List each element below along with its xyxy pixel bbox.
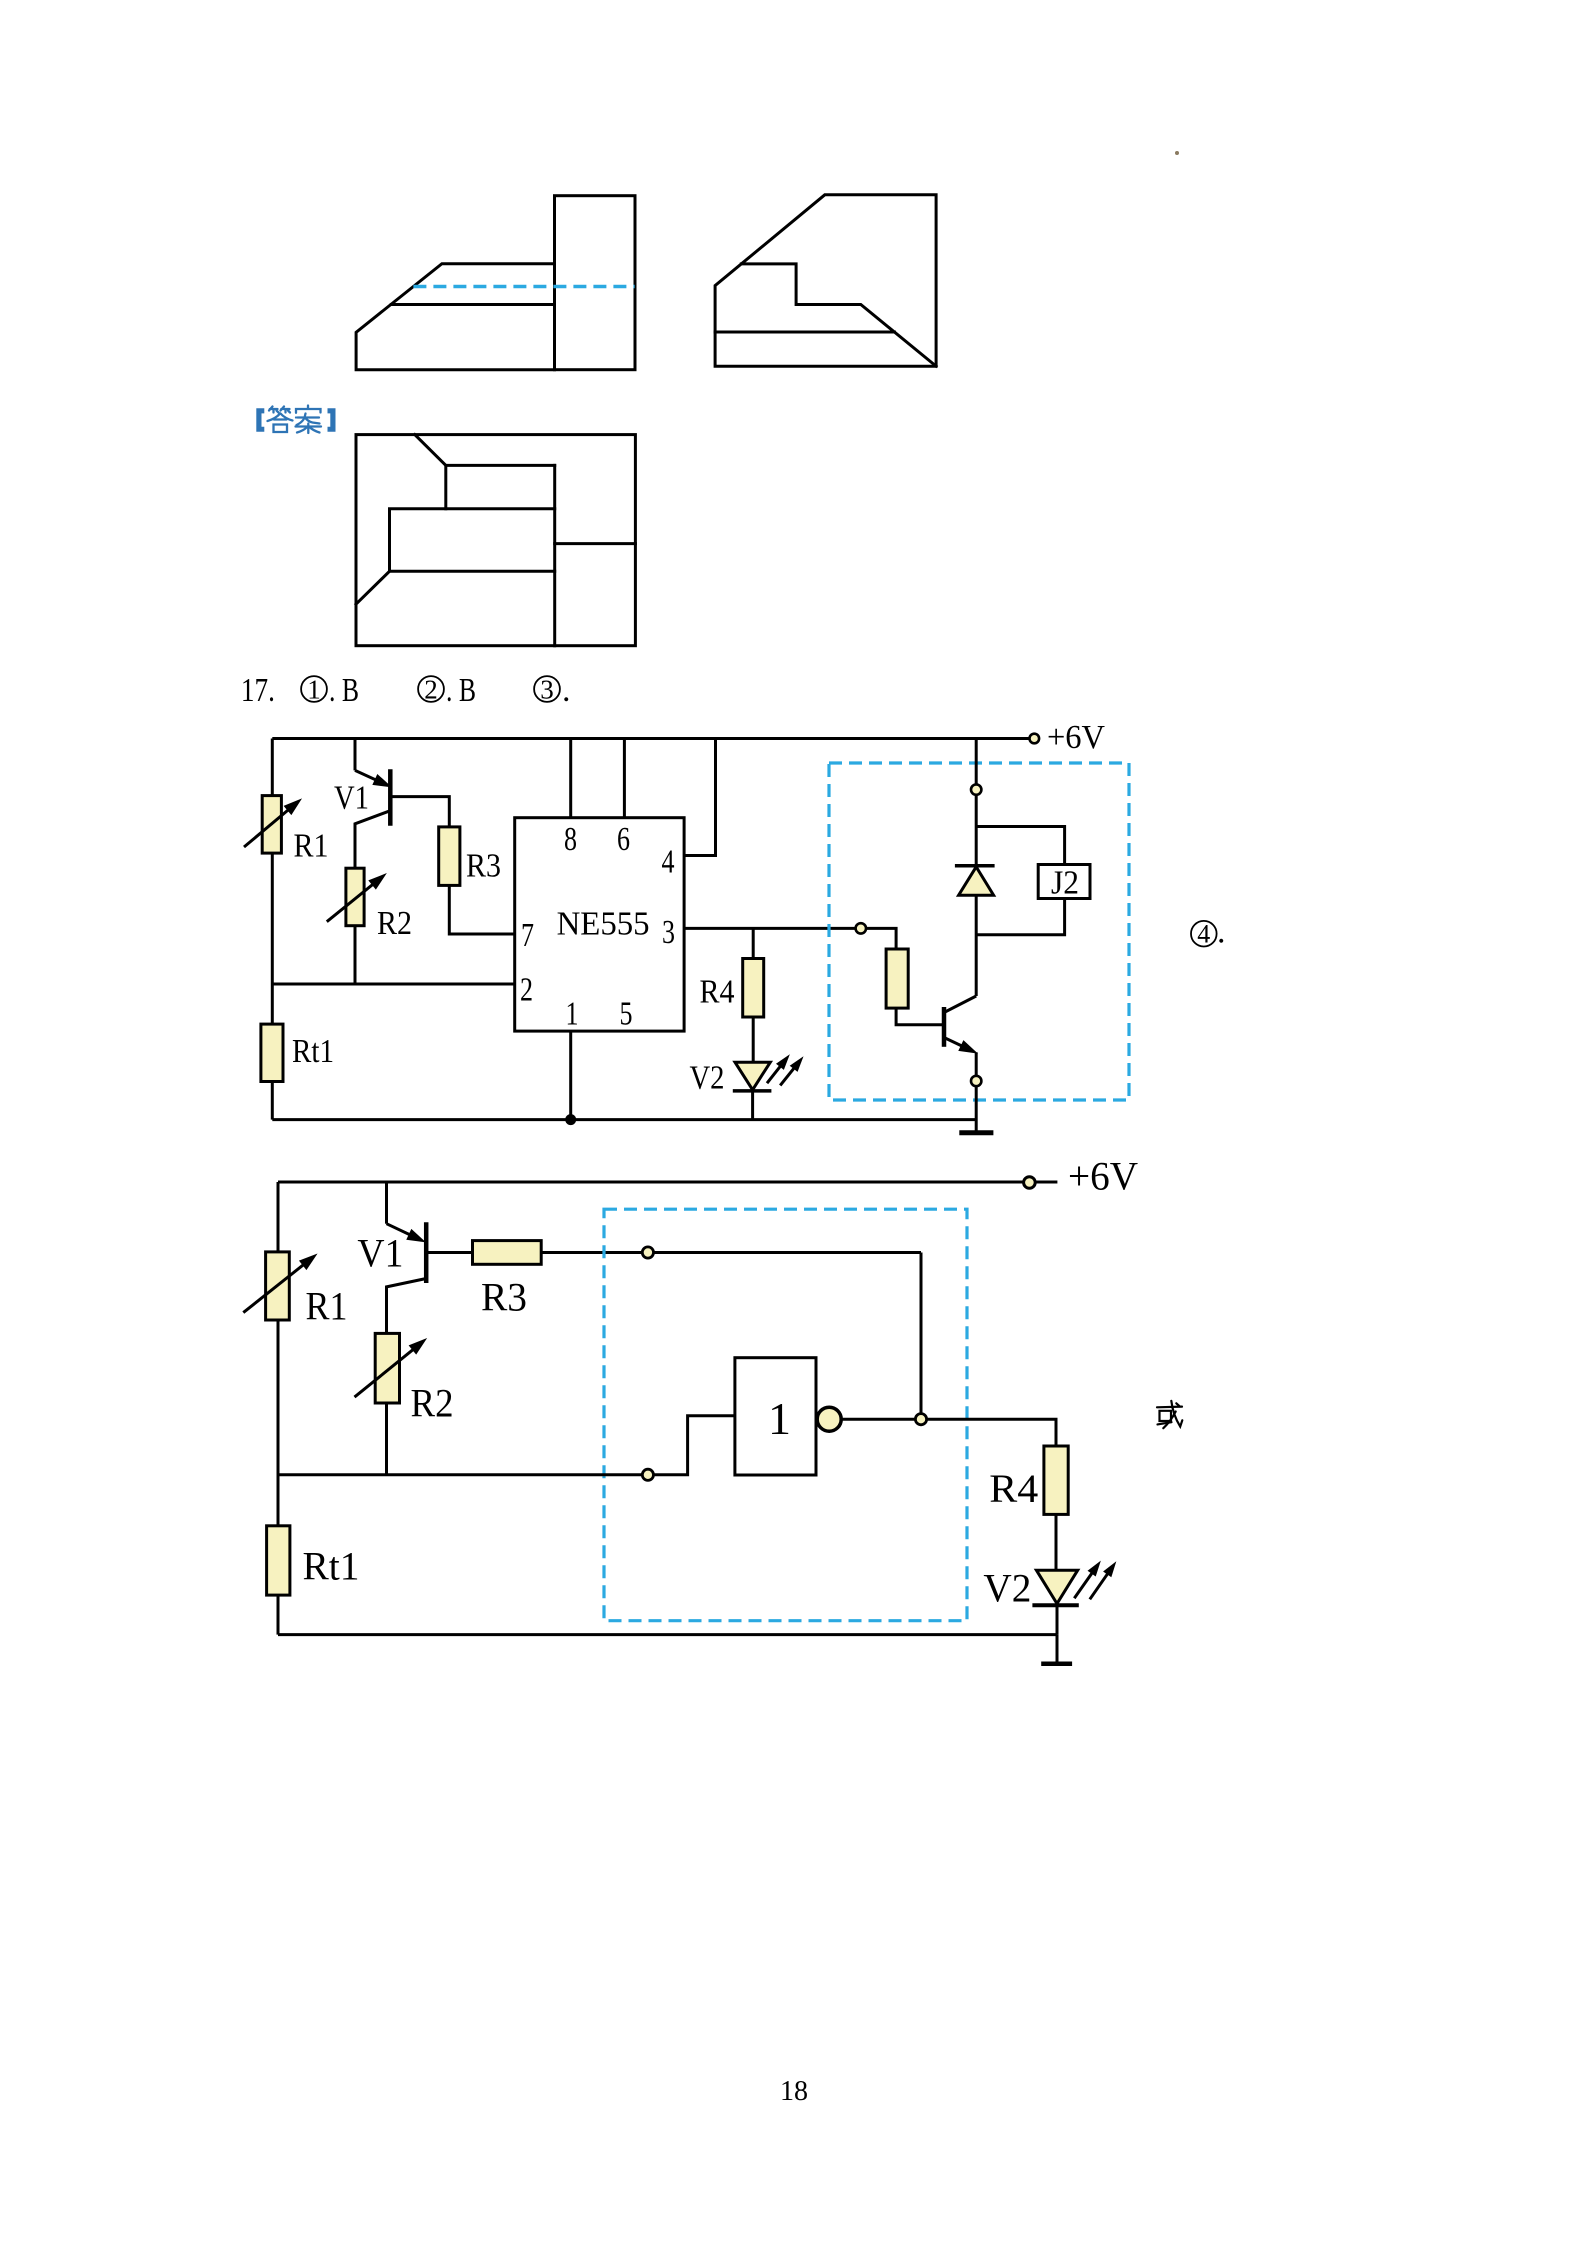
- terminal +6V (open circle): [1030, 734, 1040, 744]
- wire: +6V top rail: [278, 1181, 1023, 1184]
- view1 tall block: [555, 196, 636, 370]
- transistor V1 (PNP): [385, 1182, 388, 1224]
- view2 inner horizontal edge: [715, 331, 894, 334]
- thermistor Rt1: [267, 1526, 290, 1595]
- svg-text:J2: J2: [1051, 864, 1079, 901]
- wire: R3 to feedback node: [541, 1251, 642, 1254]
- wire: emitter down: [975, 1052, 978, 1075]
- answer top-left diagonal: [415, 435, 446, 466]
- ground: [1041, 1662, 1072, 1667]
- glyph an (case): [296, 406, 321, 413]
- view1 left body outline: [356, 264, 554, 370]
- svg-text:8: 8: [564, 821, 577, 858]
- wire: input step into gate: [654, 1416, 735, 1475]
- thermistor Rt1: [261, 1024, 283, 1081]
- transistor Q2 (NPN driver): [942, 1007, 947, 1047]
- svg-text:V2: V2: [690, 1060, 725, 1097]
- resistor R4: [1044, 1446, 1068, 1514]
- resistor R3 (horizontal): [473, 1241, 542, 1265]
- circled 1: [301, 672, 359, 709]
- circled 4 caption: [1191, 921, 1217, 947]
- junction dot: [565, 1114, 576, 1125]
- caption: huo (or) glyph: [1157, 1401, 1182, 1428]
- wire: node to R4: [927, 1419, 1056, 1446]
- svg-text:+6V: +6V: [1068, 1154, 1138, 1199]
- wire: pin 2 horizontal: [272, 983, 514, 986]
- wire: +6V top rail: [272, 737, 1030, 740]
- svg-text:R3: R3: [466, 847, 501, 884]
- svg-text:1: 1: [768, 1393, 791, 1444]
- svg-text:1: 1: [566, 996, 579, 1033]
- wire: left vertical rail: [277, 1182, 280, 1635]
- svg-text:R3: R3: [481, 1275, 527, 1320]
- LED V2: [1036, 1570, 1077, 1604]
- wire: J2 parallel branch top: [976, 827, 1064, 866]
- svg-text:V1: V1: [357, 1231, 403, 1276]
- base resistor (in box): [886, 949, 908, 1008]
- svg-text:. B: . B: [329, 672, 359, 709]
- circled 2: [418, 672, 476, 709]
- svg-text:+6V: +6V: [1047, 719, 1105, 756]
- wire: to ground: [975, 1086, 978, 1133]
- svg-text:R1: R1: [294, 827, 329, 864]
- svg-text:3: 3: [540, 675, 554, 705]
- glyph da (answer): [269, 407, 279, 413]
- answer outer rect: [356, 435, 635, 646]
- IC U1 NE555 box: [515, 818, 684, 1031]
- svg-text:.: .: [1217, 914, 1226, 951]
- terminal +6V (open circle): [1024, 1177, 1036, 1189]
- node (open) top feedback: [642, 1247, 653, 1258]
- diode VD (points up): [955, 864, 995, 868]
- view2 step edge: [741, 264, 936, 366]
- left bold bracket: [256, 408, 264, 432]
- answer lower-left diagonal: [356, 571, 390, 604]
- ground: [959, 1130, 993, 1135]
- svg-text:R1: R1: [306, 1284, 348, 1329]
- wire: diode bottom down: [975, 895, 978, 996]
- wire: left vertical rail: [271, 739, 274, 1120]
- wire: R2 bottom: [385, 1403, 388, 1475]
- svg-text:V1: V1: [334, 780, 369, 817]
- output bubble: [817, 1407, 841, 1431]
- svg-text:2: 2: [424, 675, 438, 705]
- svg-text:NE555: NE555: [557, 906, 650, 943]
- resistor R2 (variable): [375, 1333, 399, 1403]
- wire: relay branch drop: [975, 739, 978, 785]
- svg-text:R2: R2: [411, 1380, 454, 1425]
- svg-text:2: 2: [520, 971, 533, 1008]
- svg-text:17.: 17.: [241, 672, 275, 709]
- svg-text:V2: V2: [983, 1566, 1031, 1611]
- wire: node to diode top: [975, 795, 978, 866]
- svg-text:6: 6: [617, 821, 630, 858]
- view2 outline: [715, 195, 936, 366]
- node (open) input: [642, 1469, 653, 1480]
- svg-text:R2: R2: [377, 905, 412, 942]
- resistor R1 (variable): [262, 796, 281, 854]
- node (open) at emitter: [971, 1076, 981, 1086]
- stray dot top right: [1175, 151, 1179, 155]
- wire: feedback to output column: [654, 1253, 922, 1414]
- logic gate (inverter) box: [735, 1358, 816, 1475]
- wire: bottom rail: [278, 1633, 1057, 1636]
- svg-text:4: 4: [1197, 920, 1210, 949]
- wire: output to node: [841, 1418, 915, 1421]
- wire: R2 bottom to node line: [354, 926, 357, 984]
- answer right horizontal: [555, 542, 636, 545]
- svg-text:Rt1: Rt1: [303, 1543, 360, 1588]
- svg-text:4: 4: [662, 844, 675, 881]
- wire: R3 to pin 7: [449, 885, 514, 934]
- node: pin3 junction (open): [856, 923, 866, 933]
- answer right vertical: [553, 465, 556, 645]
- svg-text:.: .: [562, 672, 571, 709]
- wire: J2 bottom: [976, 898, 1064, 935]
- svg-text:3: 3: [662, 914, 675, 951]
- wire: lower input line: [278, 1473, 642, 1476]
- dashed selection box: [604, 1209, 967, 1621]
- right bold bracket: [328, 408, 336, 432]
- transistor V1 (PNP): [354, 739, 357, 771]
- svg-text:. B: . B: [446, 672, 476, 709]
- resistor R4: [752, 928, 755, 1062]
- node (open) below +6V: [971, 784, 981, 794]
- resistor R1 (variable): [266, 1252, 290, 1320]
- node (open) output: [915, 1414, 926, 1425]
- svg-text:Rt1: Rt1: [292, 1033, 334, 1070]
- wire: node to base resistor: [866, 928, 896, 949]
- relay J2 box: [1038, 865, 1090, 899]
- LED V2: [735, 1062, 770, 1090]
- resistor R3: [439, 827, 460, 886]
- answer middle rectangle: [390, 509, 555, 572]
- svg-text:7: 7: [521, 917, 534, 954]
- view1 inner edge: [391, 303, 554, 306]
- svg-text:R4: R4: [700, 974, 735, 1011]
- resistor R2 (variable): [346, 868, 364, 926]
- answer upper step lines: [446, 465, 555, 508]
- svg-text:18: 18: [780, 2076, 808, 2107]
- svg-text:R4: R4: [989, 1466, 1038, 1511]
- circled 3: [534, 672, 570, 709]
- wire: R4 to LED: [1055, 1514, 1058, 1570]
- wire: ground stub: [1056, 1635, 1059, 1664]
- svg-text:5: 5: [620, 996, 633, 1033]
- svg-text:1: 1: [307, 675, 321, 705]
- view1 cyan dashed cut line: [413, 285, 634, 289]
- wire: bottom rail: [272, 1118, 976, 1121]
- dashed selection box: [829, 763, 1129, 1100]
